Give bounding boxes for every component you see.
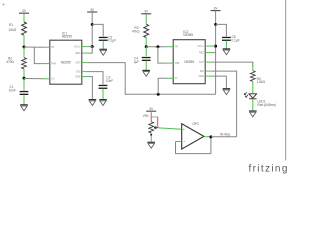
- wire LED to ground: [252, 99, 254, 111]
- wire P1 to R1: [23, 14, 25, 22]
- wire VCC junction to IC2 RES pin: [212, 52, 216, 54]
- svg-text:IN+Sig: IN+Sig: [220, 133, 230, 137]
- svg-text:1.5kΩ: 1.5kΩ: [257, 80, 266, 84]
- wire VCC junction to IC2 VCC+ pin: [212, 45, 216, 47]
- wiper jog wire: [151, 116, 158, 118]
- wire node E to IC2 THR: [158, 47, 167, 63]
- potentiometer VR1: [149, 122, 154, 133]
- svg-text:NE555: NE555: [62, 35, 72, 39]
- ground C1: [20, 105, 28, 111]
- wire P3 to R3: [145, 14, 147, 24]
- wire IC2 DIS down to op-amp output: [212, 71, 237, 137]
- node output junction: [209, 135, 212, 138]
- node IC1 VCC junction: [91, 45, 94, 48]
- svg-text:NE555: NE555: [183, 33, 193, 37]
- ground C3: [99, 100, 107, 106]
- ground LED: [249, 111, 257, 117]
- wire C1 to ground: [23, 95, 25, 104]
- capacitor C4: [142, 57, 151, 61]
- wire C2 to ground: [102, 41, 104, 49]
- svg-text:OP1: OP1: [193, 122, 200, 126]
- svg-text:Red (640nm): Red (640nm): [257, 103, 276, 107]
- resistor R1: [22, 22, 27, 35]
- wire to C5: [216, 24, 227, 36]
- 555 IC2: [167, 40, 212, 84]
- node B junction: [23, 77, 26, 80]
- op-amp output stub: [204, 136, 211, 138]
- resistor R2: [23, 47, 25, 58]
- svg-text:10kΩ: 10kΩ: [9, 28, 17, 32]
- ground C2: [99, 49, 107, 55]
- wiper arrow VR1: [154, 126, 159, 129]
- wire R3 to node D: [145, 38, 147, 47]
- wire node D to C4: [145, 47, 147, 57]
- feedback wire output to − input: [176, 137, 211, 154]
- ground C5: [223, 49, 231, 55]
- capacitor C5: [222, 37, 231, 41]
- power P5 3V: [146, 107, 156, 111]
- wire VCC junction to IC1 RES pin: [88, 47, 92, 54]
- op-amp − input stub: [176, 141, 182, 143]
- svg-text:470Ω: 470Ω: [6, 60, 14, 64]
- op-amp IC1 ... actually 555 IC1: [43, 40, 88, 84]
- wire R4 to LED: [252, 81, 254, 93]
- svg-text:R1: R1: [9, 23, 13, 27]
- wire IC1 GND to ground: [88, 77, 92, 100]
- node D junction: [145, 45, 148, 48]
- wire IC2 GND to ground: [212, 76, 227, 88]
- node A junction: [23, 46, 26, 49]
- svg-text:1µF: 1µF: [134, 60, 140, 64]
- wire IC2 OUT to R4: [212, 62, 253, 67]
- svg-text:10nF: 10nF: [9, 88, 16, 92]
- wire output to IC2 DIS riser: [211, 136, 237, 138]
- wire node B to IC1 CV: [24, 78, 43, 80]
- wire wiper to op-amp +: [159, 128, 182, 129]
- power P3 3V: [141, 10, 151, 14]
- wire R2 to node B: [23, 69, 25, 77]
- node IC2 VCC junction: [214, 45, 217, 48]
- wire lead R4 top: [252, 62, 254, 71]
- power P1 3V: [19, 9, 29, 13]
- resistor R3: [144, 24, 149, 37]
- node rail CV junction: [157, 93, 160, 96]
- wire C5 to ground: [225, 41, 227, 49]
- node C2 branch junction: [91, 23, 94, 26]
- LED LED1: [244, 92, 256, 99]
- wire IC1 OUT to rail: [88, 63, 215, 95]
- wire IC1 DIS to C3: [88, 72, 103, 85]
- svg-text:0.1µF: 0.1µF: [231, 38, 239, 42]
- ground C4: [142, 70, 150, 76]
- wire node D to node E: [146, 46, 167, 48]
- node E junction: [156, 45, 159, 48]
- stray mark top-left: [3, 4, 5, 6]
- wire C3 to ground: [102, 89, 104, 100]
- ground IC2: [223, 89, 231, 95]
- wire P5 stem: [150, 112, 152, 114]
- power P2 3V: [87, 8, 97, 12]
- wire to C2: [92, 24, 103, 36]
- wire R1 to node A: [23, 35, 25, 46]
- ground IC1: [89, 100, 97, 106]
- svg-text:0.1µF: 0.1µF: [108, 39, 116, 43]
- wire VCC junction to IC1 VCC+ pin: [88, 46, 92, 48]
- ratsnest P5 to VR1 top: [150, 114, 152, 122]
- op-amp OP1: [182, 124, 204, 149]
- svg-text:VR1: VR1: [143, 114, 149, 118]
- wire rail to IC2 CV: [158, 78, 167, 94]
- svg-text:fritzing: fritzing: [249, 164, 289, 175]
- wire node A to IC1 TR: [24, 46, 43, 48]
- wire VR1 bottom to ground: [150, 133, 152, 142]
- wire P2 down to IC1 VCC node: [91, 13, 93, 47]
- ground VR1: [147, 142, 155, 148]
- wire node A to IC1 THR jog: [34, 47, 43, 63]
- svg-text:47kΩ: 47kΩ: [132, 30, 140, 34]
- wire P4 down to rail: [215, 11, 217, 94]
- wire C4 to ground: [145, 61, 147, 70]
- capacitor C1: [20, 91, 29, 95]
- capacitor C2: [99, 37, 108, 41]
- capacitor C3: [99, 85, 108, 89]
- wire node B to C1: [23, 78, 25, 90]
- svg-text:10nF: 10nF: [106, 79, 113, 83]
- page border line: [285, 0, 287, 161]
- ratsnest to wiper: [157, 117, 159, 127]
- power P4 3V: [211, 7, 221, 11]
- node C5 branch junction: [214, 23, 217, 26]
- resistor R4: [250, 71, 255, 82]
